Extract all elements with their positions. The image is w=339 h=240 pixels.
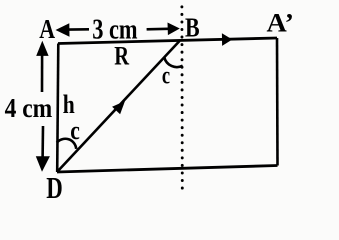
- angle arc at B: [164, 58, 182, 68]
- arrowhead on top edge toward A': [222, 33, 232, 46]
- svg-text:R: R: [114, 42, 129, 71]
- svg-text:4 cm: 4 cm: [5, 93, 53, 123]
- diagonal ray D to B: [57, 41, 180, 172]
- dimension arrow down (4 cm): [41, 126, 44, 158]
- svg-text:A’: A’: [267, 7, 295, 37]
- svg-text:B: B: [185, 12, 200, 43]
- arrowhead on diagonal ray: [112, 101, 125, 114]
- rectangle left edge A to D: [57, 44, 58, 173]
- rectangle right edge: [276, 38, 279, 166]
- dimension arrow up (4 cm): [41, 54, 44, 92]
- svg-text:A: A: [39, 14, 55, 44]
- dimension arrow right (3 cm): [147, 27, 168, 30]
- svg-text:D: D: [46, 171, 63, 205]
- angle arc at D: [57, 139, 76, 149]
- dotted vertical line through B: [180, 7, 183, 190]
- rectangle top edge A to A': [58, 38, 277, 44]
- svg-text:h: h: [63, 90, 75, 119]
- svg-text:c: c: [162, 63, 170, 90]
- rectangle bottom edge D to corner: [57, 166, 278, 173]
- dimension arrow left (3 cm): [68, 28, 89, 31]
